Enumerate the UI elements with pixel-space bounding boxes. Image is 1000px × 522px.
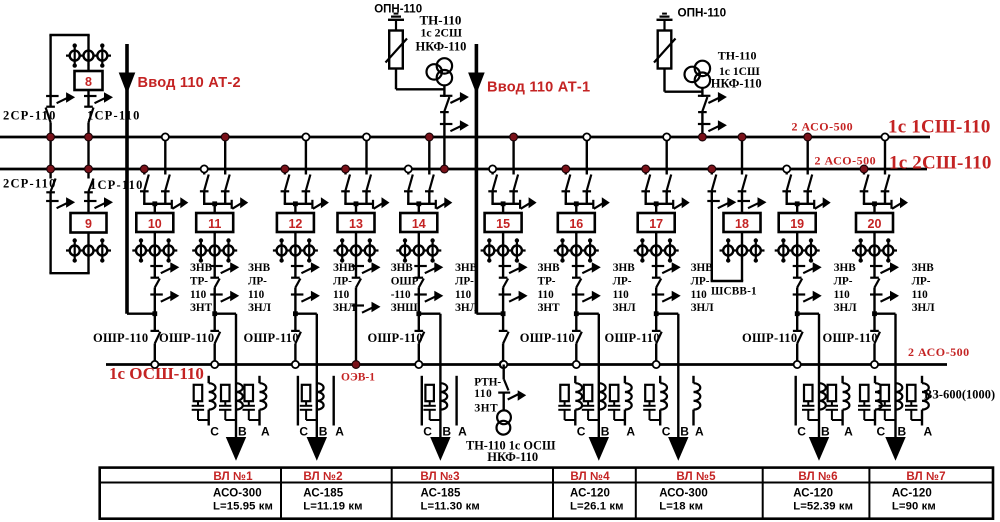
wire junction to ОШР bay 19 [796, 314, 798, 332]
surge arrester ОПН-110 1СШ [658, 31, 672, 69]
wire bay 11 to ВЛ1 [215, 313, 236, 315]
svg-text:110: 110 [455, 289, 472, 301]
node bus2 x204 [201, 165, 208, 172]
svg-text:ЗНЛ: ЗНЛ [248, 302, 272, 314]
svg-text:2СР-110: 2СР-110 [3, 108, 57, 122]
svg-text:С: С [210, 424, 219, 438]
wire breaker 19 to CT [796, 232, 798, 241]
phase C ВЛ1 [207, 376, 209, 383]
breaker 11 [196, 213, 233, 232]
wire bar to breaker 19 [796, 204, 798, 213]
wire breaker 20 to CT [873, 232, 875, 241]
wire ЛР to junction bay 15 [502, 288, 504, 314]
svg-text:ОПН-110: ОПН-110 [678, 7, 727, 20]
svg-text:ЛР-: ЛР- [455, 275, 474, 287]
CT bay 20 [852, 249, 897, 251]
node bypass bus bay 16 [573, 361, 580, 368]
breaker 18 [724, 213, 761, 232]
svg-text:ЗНТ: ЗНТ [474, 403, 498, 415]
node bus2 x285 [281, 165, 289, 173]
phase C ВЛ7 [874, 376, 876, 383]
earthing switch left lower [46, 200, 59, 202]
wire drop bus2 x787 [786, 169, 788, 175]
wire ТН column 1СШ [701, 88, 703, 97]
node bus2 ШСВВ [708, 165, 716, 173]
wire bay 13 to bypass bus [355, 288, 357, 365]
merge bar bay x356 [344, 203, 373, 205]
wave trap phase B ВЛ6 [819, 383, 826, 409]
wire left column lower [49, 192, 51, 273]
wire CT 18 down [741, 260, 743, 281]
svg-text:ОШР-110: ОШР-110 [742, 331, 797, 345]
disconnector bus2 bay x215 [200, 190, 209, 192]
svg-text:В: В [442, 424, 451, 438]
node bus2 x50 [47, 165, 55, 173]
svg-text:ЗНЛ: ЗНЛ [455, 302, 479, 314]
svg-text:110: 110 [538, 289, 555, 301]
wire bar to breaker 16 [575, 204, 577, 213]
wave trap phase B ВЛ7 [896, 383, 903, 409]
node bus1 x88 [85, 133, 93, 141]
junction bay 12 [293, 311, 298, 316]
disconnector 2СР-110 lower [46, 191, 55, 193]
wire bay 17 to ВЛ5 [656, 313, 678, 315]
disconnector bus2 bay x356 [341, 190, 350, 192]
earthing switch right upper [84, 95, 97, 97]
wire drop bus1 x885 [884, 137, 886, 175]
node bypass bus bay 14 [415, 361, 422, 368]
wire drop bus2 x346 [344, 169, 346, 175]
svg-text:В: В [601, 424, 610, 438]
svg-text:ЗНЛ: ЗНЛ [912, 302, 936, 314]
disconnector ОШР-110 bay 10 [151, 330, 160, 332]
svg-text:110: 110 [691, 289, 708, 301]
infeed line АТ-1 [475, 44, 479, 314]
CT breaker 8 [66, 54, 111, 56]
svg-text:L=26.1 км: L=26.1 км [570, 501, 624, 513]
svg-text:АС-185: АС-185 [421, 487, 461, 499]
svg-text:13: 13 [349, 217, 363, 231]
wire bar to breaker 14 [418, 204, 420, 213]
disconnector ОШР-110 bay 16 [572, 330, 581, 332]
merge bar bay x503 [491, 203, 520, 205]
svg-text:РТН-: РТН- [474, 376, 501, 388]
CT bay 15 [481, 249, 526, 251]
CT bay 17 [634, 249, 679, 251]
disconnector ОШР-110 bay 15 [499, 330, 508, 332]
svg-text:А: А [844, 424, 853, 438]
node bus1 x587 [583, 133, 590, 140]
earthing switch ЗНВ bay 16 [572, 265, 585, 267]
earthing switch bar bay x797 [813, 200, 815, 209]
disconnector bus2 bay x503 [488, 190, 497, 192]
svg-text:А: А [458, 424, 467, 438]
node bypass bus bay 13 [352, 361, 360, 369]
disconnector bus2 bay x656 [641, 190, 650, 192]
wire bar to breaker 11 [213, 204, 215, 213]
table divider 3 [552, 468, 554, 519]
voltage transformer ТН-110 2СШ [437, 58, 452, 73]
phase C ВЛ5 [659, 376, 661, 383]
wire bay 19 to ВЛ6 [797, 313, 819, 315]
svg-text:ВЛ №3: ВЛ №3 [420, 470, 460, 483]
svg-text:ВЛ №2: ВЛ №2 [303, 470, 342, 483]
wire junction to ОШР bay 20 [873, 314, 875, 332]
disconnector ЛР bay 20 [870, 277, 879, 279]
wire drop bus1 x667 [666, 137, 668, 175]
ground 1СШ [663, 21, 665, 31]
node bus1 x514 [510, 133, 518, 141]
svg-text:ОШР-110: ОШР-110 [159, 331, 214, 345]
wire drop to bar x346 [344, 191, 346, 204]
arrow ВЛ3 [430, 437, 450, 461]
arrow Ввод 110 АТ-1 [468, 73, 485, 95]
wire bay 16 to ВЛ4 [576, 313, 599, 315]
node bus2 x408 [405, 165, 412, 172]
earthing switch bar bay x155 [171, 200, 173, 209]
svg-text:ОШР-110: ОШР-110 [93, 331, 148, 345]
earthing switch ЗНВ bay 20 [870, 265, 883, 267]
junction bay 19 [795, 311, 800, 316]
svg-text:ОШР-110: ОШР-110 [823, 331, 878, 345]
arrow ВЛ6 [809, 437, 829, 461]
wave trap phase B ВЛ4 [599, 383, 606, 409]
voltage transformer ТН ОСШ [497, 410, 511, 424]
svg-text:1с 1СШ-110: 1с 1СШ-110 [888, 117, 991, 138]
wire junction to ОШР bay 11 [213, 314, 215, 332]
merge bar bay x419 [407, 203, 436, 205]
svg-text:В: В [680, 424, 689, 438]
svg-text:С: С [577, 424, 586, 438]
earthing switch ЗНВ bay 12 [291, 265, 304, 267]
node bypass bus bay 12 [292, 361, 299, 368]
node bus1 x808 [804, 133, 812, 141]
wire left column below bus2 [49, 169, 51, 179]
svg-text:В: В [238, 424, 247, 438]
disconnector ЛР bay 10 [151, 277, 160, 279]
arrow ВЛ5 [668, 437, 688, 461]
wire drop to bar x587 [586, 191, 588, 204]
junction bay 11 [212, 311, 217, 316]
svg-text:2СР-110: 2СР-110 [3, 176, 57, 190]
wire CT down bay 19 [796, 260, 798, 279]
wire ОШР to bypass bus bay 16 [575, 344, 577, 365]
wire CT down bay 16 [575, 260, 577, 279]
wire ОШР to bypass bus bay 17 [655, 344, 657, 365]
table divider 4 [635, 468, 637, 519]
earthing switch ЗНЛ bay 16 [572, 293, 585, 295]
wire right column to breaker 9 [87, 192, 89, 213]
svg-text:ОШР: ОШР [391, 275, 419, 287]
wire breaker 16 to CT [575, 232, 577, 241]
node bus1 x885 [881, 133, 888, 140]
infeed line АТ-2 [125, 44, 129, 314]
disconnector ЛР bay 11 [210, 277, 219, 279]
wire ШСВВ left column [711, 191, 713, 281]
disconnector РТН-110 [504, 380, 509, 391]
svg-text:ЗНЛ: ЗНЛ [834, 302, 858, 314]
wire drop bus2 x493 [491, 169, 493, 175]
wire drop bus1 x808 [807, 137, 809, 175]
wire drop to bar x667 [666, 191, 668, 204]
CT bay 12 [273, 249, 318, 251]
CT bay 19 [775, 249, 820, 251]
svg-text:L=90 км: L=90 км [892, 501, 936, 513]
svg-text:ЗНВ: ЗНВ [333, 262, 356, 274]
wire drop to bar x204 [203, 191, 205, 204]
wave trap phase B ВЛ1 [236, 383, 243, 409]
svg-text:А: А [261, 424, 270, 438]
wire ЛР to junction bay 17 [655, 288, 657, 314]
wire CT down bay 20 [873, 260, 875, 279]
CT bay 10 [132, 249, 177, 251]
wire ШСВВ right drop [741, 137, 743, 175]
wire bar to breaker 20 [873, 204, 875, 213]
phase A ВЛ7 [921, 376, 923, 383]
wire drop to bar x885 [884, 191, 886, 204]
wire left column upper [49, 35, 51, 108]
disconnector ШСВВ bus1 [738, 190, 747, 192]
node bypass bus bay 19 [794, 361, 801, 368]
svg-text:L=15.95 км: L=15.95 км [213, 501, 273, 513]
wire CT down bay 10 [154, 260, 156, 279]
svg-text:ЗНВ: ЗНВ [391, 262, 414, 274]
svg-text:19: 19 [790, 217, 804, 231]
svg-text:В: В [898, 424, 907, 438]
wire bar to breaker 12 [294, 204, 296, 213]
disconnector ЛР bay 17 [652, 277, 661, 279]
node bypass bus bay 20 [871, 361, 878, 368]
wire CT down bay 11 [213, 260, 215, 279]
svg-text:1СР-110: 1СР-110 [87, 108, 141, 122]
svg-text:L=11.30 км: L=11.30 км [421, 501, 480, 513]
wire drop bus2 x566 [565, 169, 567, 175]
wire CT down bay 17 [655, 260, 657, 279]
tick РТН [498, 392, 510, 394]
svg-text:110: 110 [613, 289, 630, 301]
svg-text:12: 12 [288, 217, 302, 231]
svg-text:ЗНШ: ЗНШ [391, 302, 419, 314]
wire ШСВВ bottom U [711, 280, 744, 282]
merge bar bay x295 [284, 203, 313, 205]
earthing switch ЗНВ bay 17 [652, 265, 665, 267]
earthing switch ТН upper 2СШ [440, 95, 453, 97]
node bus1 x306 [302, 133, 309, 140]
junction bay 15 [501, 311, 506, 316]
disconnector bus1 bay x155 [161, 190, 170, 192]
phase A ВЛ2 [333, 376, 335, 426]
disconnector ТН 2СШ [440, 111, 449, 113]
wire drop to bar x366 [365, 191, 367, 204]
wire CT down bay 15 [502, 260, 504, 279]
breaker 10 [136, 213, 173, 232]
svg-text:АСО-300: АСО-300 [213, 487, 262, 499]
wire ТН column 2СШ [443, 85, 445, 97]
wire drop to bar x808 [807, 191, 809, 204]
wire drop to bar x285 [284, 191, 286, 204]
wire CT down bay 13 [355, 260, 357, 279]
svg-text:С: С [662, 424, 671, 438]
wire bar to breaker 17 [655, 204, 657, 213]
wire ОШР to bypass bus bay 14 [418, 344, 420, 365]
phase C ВЛ6 [795, 376, 797, 426]
wire ОШР to bypass bus bay 12 [294, 344, 296, 365]
CT bay 18 [720, 249, 765, 251]
disconnector ЛР bay 14 [415, 277, 424, 279]
wire drop to bar x514 [512, 191, 514, 204]
earthing switch ЗНЛ bay 20 [870, 293, 883, 295]
svg-text:ВЗ-600(1000): ВЗ-600(1000) [924, 387, 995, 401]
wire ЛР to junction bay 16 [575, 288, 577, 314]
wire drop to bar x408 [407, 191, 409, 204]
wire ТН column lower 1СШ [701, 112, 703, 137]
breaker 13 [338, 213, 375, 232]
node bus2 x88 [85, 165, 93, 173]
svg-text:НКФ-110: НКФ-110 [487, 450, 538, 464]
svg-text:ЗНВ: ЗНВ [613, 262, 636, 274]
svg-text:20: 20 [868, 217, 882, 231]
voltage transformer ТН-110 1СШ [695, 61, 710, 76]
earthing switch ЗНЛ bay 12 [291, 293, 304, 295]
feeder drop ВЛ2 [316, 314, 318, 438]
svg-text:ОПН-110: ОПН-110 [374, 3, 422, 15]
disconnector ОШР-110 bay 12 [291, 330, 300, 332]
wire ОШР to bypass bus bay 20 [873, 344, 875, 365]
svg-text:110: 110 [190, 289, 207, 301]
wire drop bus2 x646 [645, 169, 647, 175]
wave trap phase B ВЛ3 [440, 383, 447, 409]
svg-text:НКФ-110: НКФ-110 [416, 39, 467, 53]
earthing switch bar bay x419 [435, 200, 437, 209]
svg-text:ЛР-: ЛР- [834, 275, 853, 287]
node bus2 x646 [642, 165, 650, 173]
svg-text:2 АСО-500: 2 АСО-500 [815, 154, 877, 168]
wave trap phase B ВЛ2 [317, 383, 324, 409]
table header divider [100, 482, 993, 484]
phase C ВЛ2 [297, 376, 299, 426]
earthing switch bar bay x656 [672, 200, 674, 209]
svg-text:ЗНВ: ЗНВ [248, 262, 271, 274]
wire junction to ОШР bay 15 [502, 314, 504, 332]
svg-text:ЛР-: ЛР- [613, 275, 632, 287]
arrow ВЛ1 [226, 437, 246, 461]
wire bay 12 to ВЛ2 [295, 313, 316, 315]
svg-text:С: С [423, 424, 432, 438]
node bypass bus bay 11 [211, 361, 218, 368]
bus 1СШ-110 [0, 136, 930, 139]
svg-text:ОШР-110: ОШР-110 [605, 331, 660, 345]
earthing switch bar bay x576 [592, 200, 594, 209]
phase A ВЛ1 [258, 376, 260, 383]
table divider 5 [762, 468, 764, 519]
disconnector ЛР bay 15 [499, 277, 508, 279]
svg-text:17: 17 [649, 217, 663, 231]
table divider 6 [868, 468, 870, 519]
node bus1 x366 [363, 133, 370, 140]
earthing switch ЗНЛ bay 10 [150, 293, 163, 295]
breaker 16 [558, 213, 595, 232]
svg-text:ОШР-110: ОШР-110 [368, 331, 423, 345]
disconnector ОШР bay 13 [352, 277, 361, 279]
disconnector bus1 bay x356 [362, 190, 371, 192]
earthing switch ЗНЛ bay 11 [210, 293, 223, 295]
merge bar bay x576 [565, 203, 594, 205]
svg-text:2 АСО-500: 2 АСО-500 [792, 120, 854, 134]
disconnector bus1 bay x295 [302, 190, 311, 192]
svg-text:ЗНВ: ЗНВ [190, 262, 213, 274]
svg-text:ЗНВ: ЗНВ [834, 262, 857, 274]
svg-text:14: 14 [412, 217, 426, 231]
svg-text:ВЛ №1: ВЛ №1 [213, 470, 253, 483]
disconnector bus2 bay x419 [404, 190, 413, 192]
arrow ВЛ2 [307, 437, 327, 461]
junction bay 16 [574, 311, 579, 316]
svg-text:С: С [877, 424, 886, 438]
svg-text:ВЛ №7: ВЛ №7 [906, 470, 945, 483]
junction bay 10 [152, 311, 157, 316]
arrow Ввод 110 АТ-2 [119, 73, 136, 95]
wire drop to bar x429 [428, 191, 430, 204]
wire drop to bar x566 [565, 191, 567, 204]
earthing switch ШСВВ left [707, 200, 720, 202]
svg-text:110: 110 [474, 388, 492, 400]
wire ОШР to bypass bus bay 15 [502, 344, 504, 365]
wire right column top [87, 35, 89, 46]
svg-text:АС-120: АС-120 [892, 487, 932, 499]
wire drop bus2 x144 [143, 169, 145, 175]
table frame [100, 468, 993, 519]
wire ОШР to bypass bus bay 11 [213, 344, 215, 365]
wire bar to breaker 13 [355, 204, 357, 213]
wire drop to bar x864 [863, 191, 865, 204]
earthing switch ЗНШ bay 13 [352, 304, 365, 306]
earthing switch ЗНЛ bay 14 [414, 293, 427, 295]
disconnector ТН 1СШ [698, 111, 707, 113]
wire ЛР to junction bay 12 [294, 288, 296, 314]
breaker 14 [400, 213, 437, 232]
disconnector bus2 bay x874 [860, 190, 869, 192]
svg-text:110: 110 [912, 289, 929, 301]
phase A ВЛ5 [692, 376, 694, 383]
phase A ВЛ6 [841, 376, 843, 383]
surge arrester ОПН-110 2СШ [389, 31, 403, 69]
svg-text:1с 2СШ-110: 1с 2СШ-110 [889, 153, 992, 174]
wire drop to bar x646 [645, 191, 647, 204]
wire left column to bus1 [49, 123, 51, 138]
svg-text:С: С [299, 424, 308, 438]
svg-text:ОШР-110: ОШР-110 [244, 331, 299, 345]
disconnector bus1 bay x215 [221, 190, 230, 192]
arrow ВЛ4 [589, 437, 609, 461]
wire drop bus1 x366 [365, 137, 367, 175]
node bypass bus bay 10 [151, 361, 158, 368]
arrow ВЛ7 [885, 437, 905, 461]
svg-text:НКФ-110: НКФ-110 [711, 76, 762, 90]
wire drop to bar x144 [143, 191, 145, 204]
svg-text:15: 15 [496, 217, 510, 231]
wire right column below bus2 [87, 169, 89, 179]
svg-text:ЛР-: ЛР- [248, 275, 267, 287]
svg-text:1с 2СШ: 1с 2СШ [421, 25, 463, 39]
wire bar to breaker 10 [154, 204, 156, 213]
wire drop to bar x225 [224, 191, 226, 204]
wire CT down bay 12 [294, 260, 296, 279]
earthing switch ТН lower 1СШ [698, 123, 711, 125]
svg-text:В: В [319, 424, 328, 438]
earthing switch bar bay x874 [890, 200, 892, 209]
svg-text:А: А [924, 424, 933, 438]
wire ТН column lower 2СШ [443, 112, 445, 169]
